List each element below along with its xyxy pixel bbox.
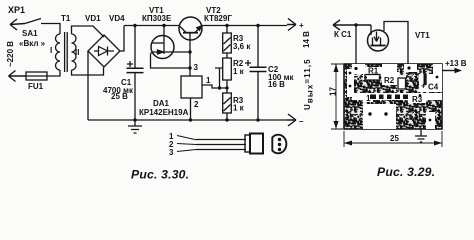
svg-text:–: –: [299, 117, 304, 126]
bottom rail junction dots: [133, 118, 136, 121]
svg-text:25: 25: [390, 134, 399, 143]
ground (pcb): [415, 129, 427, 142]
top rail: [124, 25, 287, 27]
transistor VT1 (pcb figure): [368, 30, 389, 51]
svg-text:+13 В: +13 В: [445, 59, 467, 68]
diode symbol inside bridge: [94, 47, 114, 56]
svg-text:VT1: VT1: [415, 31, 430, 40]
svg-text:Т1: Т1: [61, 14, 71, 23]
svg-text:~220 В: ~220 В: [6, 41, 15, 67]
wire bridge minus down: [87, 51, 89, 120]
holes: [349, 66, 439, 121]
plug arrow bottom (XP1 pin): [9, 71, 27, 82]
svg-text:Рис. 3.29.: Рис. 3.29.: [377, 165, 435, 179]
wire FU1 to T1 primary bottom: [47, 70, 60, 76]
package side view: [245, 135, 250, 152]
wire VT2 base down to DA1: [189, 33, 191, 76]
pad row in middle band: [370, 95, 408, 100]
svg-text:R3: R3: [412, 95, 423, 104]
svg-text:Рис. 3.30.: Рис. 3.30.: [131, 168, 189, 182]
svg-text:+: +: [299, 21, 304, 30]
svg-text:FU1: FU1: [28, 82, 44, 91]
wire bridge plus up to rail: [120, 26, 124, 52]
PCB board: [344, 64, 442, 129]
switch SA1: [25, 19, 41, 24]
wire to C1 with arrow: [333, 20, 371, 30]
white clearance zones on board: [347, 64, 442, 129]
transformer T1 core: [65, 32, 68, 72]
resistor R3 3.6k: [225, 24, 228, 27]
capacitor C2: [256, 24, 259, 27]
dimension 25: [344, 131, 442, 147]
bridge rectifier VD1-VD4 diamond: [88, 35, 120, 67]
resistor R3 1k: [226, 88, 228, 93]
svg-text:II: II: [75, 48, 79, 57]
resistor R2 1k (trimmer): [223, 58, 232, 80]
bottom rail: [88, 119, 287, 121]
svg-text:1: 1: [206, 76, 211, 85]
svg-text:1 к: 1 к: [233, 104, 245, 113]
output arrow plus: [287, 19, 296, 31]
svg-text:«Вкл »: «Вкл »: [19, 39, 46, 48]
pin 1 wire: [202, 85, 227, 88]
svg-text:16 В: 16 В: [268, 80, 285, 89]
svg-text:2: 2: [194, 100, 199, 109]
wire VT1 gate loop: [151, 53, 191, 69]
plug arrow top (XP1 pin): [10, 19, 25, 30]
svg-text:ХР1: ХР1: [8, 5, 25, 15]
pinout pointer lines: [177, 136, 196, 152]
svg-text:VD1: VD1: [85, 14, 101, 23]
wire secondary bottom to bridge: [72, 68, 104, 76]
svg-text:25 В: 25 В: [111, 92, 128, 101]
svg-text:3: 3: [194, 63, 199, 72]
svg-text:Uвых=11,5: Uвых=11,5: [303, 58, 314, 110]
svg-text:КР142ЕН19А: КР142ЕН19А: [139, 108, 189, 117]
transistor VT1 (KP303E): [151, 36, 174, 59]
svg-text:К С1: К С1: [334, 30, 352, 39]
svg-text:DA1: DA1: [153, 99, 170, 108]
C4 component bar on board: [424, 74, 427, 85]
fuse FU1: [26, 72, 47, 80]
R1 component outline on board: [365, 75, 380, 81]
svg-text:17: 17: [329, 87, 338, 96]
ground: [128, 120, 142, 133]
pin 2 wire: [190, 98, 192, 120]
svg-text:R1: R1: [368, 67, 379, 76]
transistor pinout drawing: leads: [196, 140, 246, 150]
svg-text:14 В: 14 В: [302, 31, 311, 48]
svg-text:1 к: 1 к: [233, 67, 245, 76]
svg-text:3: 3: [169, 148, 174, 157]
svg-text:R2: R2: [384, 76, 395, 85]
package bottom view: [272, 135, 286, 154]
capacitor C1: [133, 24, 136, 27]
svg-text:C4: C4: [428, 83, 439, 92]
svg-text:КП303Е: КП303Е: [142, 14, 172, 23]
transformer T1 secondary winding II: [72, 34, 77, 70]
svg-text:SA1: SA1: [22, 29, 38, 38]
svg-text:1: 1: [366, 94, 371, 103]
svg-text:VD4: VD4: [109, 14, 125, 23]
transformer T1 primary winding I: [56, 34, 61, 70]
IC DA1 box: [181, 76, 202, 98]
R2 component outline on board: [398, 78, 406, 89]
transistor VT2 (KT829G): [179, 17, 202, 40]
trimmer wiper tap: [215, 68, 223, 88]
wire secondary top to bridge: [72, 26, 105, 37]
svg-text:КТ829Г: КТ829Г: [204, 14, 232, 23]
output arrow minus: [287, 114, 296, 126]
dimension 17: [331, 64, 343, 129]
wire switch to T1 primary top: [41, 24, 60, 35]
wire down to board left: [355, 25, 357, 66]
svg-text:3,6 к: 3,6 к: [233, 42, 251, 51]
svg-text:+: +: [421, 82, 426, 91]
svg-text:I: I: [50, 46, 52, 55]
